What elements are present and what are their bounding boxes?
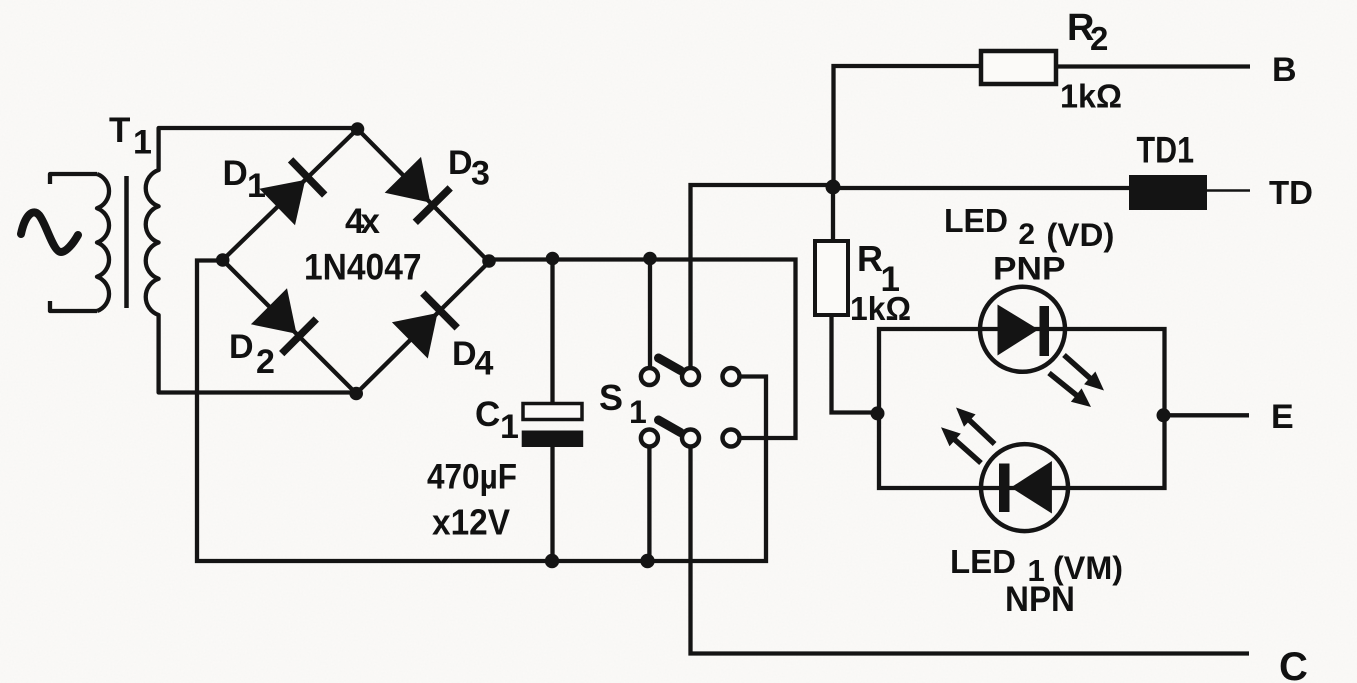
svg-text:1kΩ: 1kΩ — [1060, 78, 1122, 115]
svg-text:D: D — [448, 144, 473, 182]
svg-text:B: B — [1272, 51, 1297, 89]
svg-text:C: C — [1279, 645, 1308, 683]
svg-text:x12V: x12V — [432, 502, 510, 543]
svg-text:S: S — [599, 377, 623, 418]
svg-text:LED: LED — [950, 543, 1016, 580]
svg-text:1: 1 — [500, 408, 519, 446]
svg-text:1: 1 — [247, 167, 266, 205]
svg-text:1kΩ: 1kΩ — [850, 290, 911, 327]
svg-text:2: 2 — [1090, 20, 1108, 57]
svg-text:4x: 4x — [345, 202, 381, 241]
svg-text:3: 3 — [471, 155, 490, 193]
svg-text:TD1: TD1 — [1137, 130, 1195, 171]
svg-text:1: 1 — [629, 394, 647, 430]
svg-text:D: D — [229, 328, 254, 366]
svg-text:LED: LED — [944, 202, 1008, 239]
svg-text:1N4047: 1N4047 — [304, 247, 422, 288]
svg-text:PNP: PNP — [993, 251, 1066, 287]
svg-text:2: 2 — [256, 343, 275, 381]
svg-text:2: 2 — [1018, 218, 1035, 251]
svg-text:4: 4 — [475, 345, 494, 383]
svg-text:470µF: 470µF — [427, 458, 517, 497]
svg-text:1: 1 — [133, 124, 152, 162]
svg-text:TD: TD — [1269, 174, 1313, 211]
svg-text:C: C — [475, 395, 500, 434]
svg-text:D: D — [223, 154, 248, 193]
svg-text:NPN: NPN — [1005, 580, 1075, 619]
svg-text:(VD): (VD) — [1046, 217, 1114, 253]
svg-text:E: E — [1271, 398, 1294, 436]
svg-text:R: R — [857, 238, 883, 279]
svg-text:D: D — [452, 335, 477, 373]
svg-text:T: T — [109, 111, 130, 150]
